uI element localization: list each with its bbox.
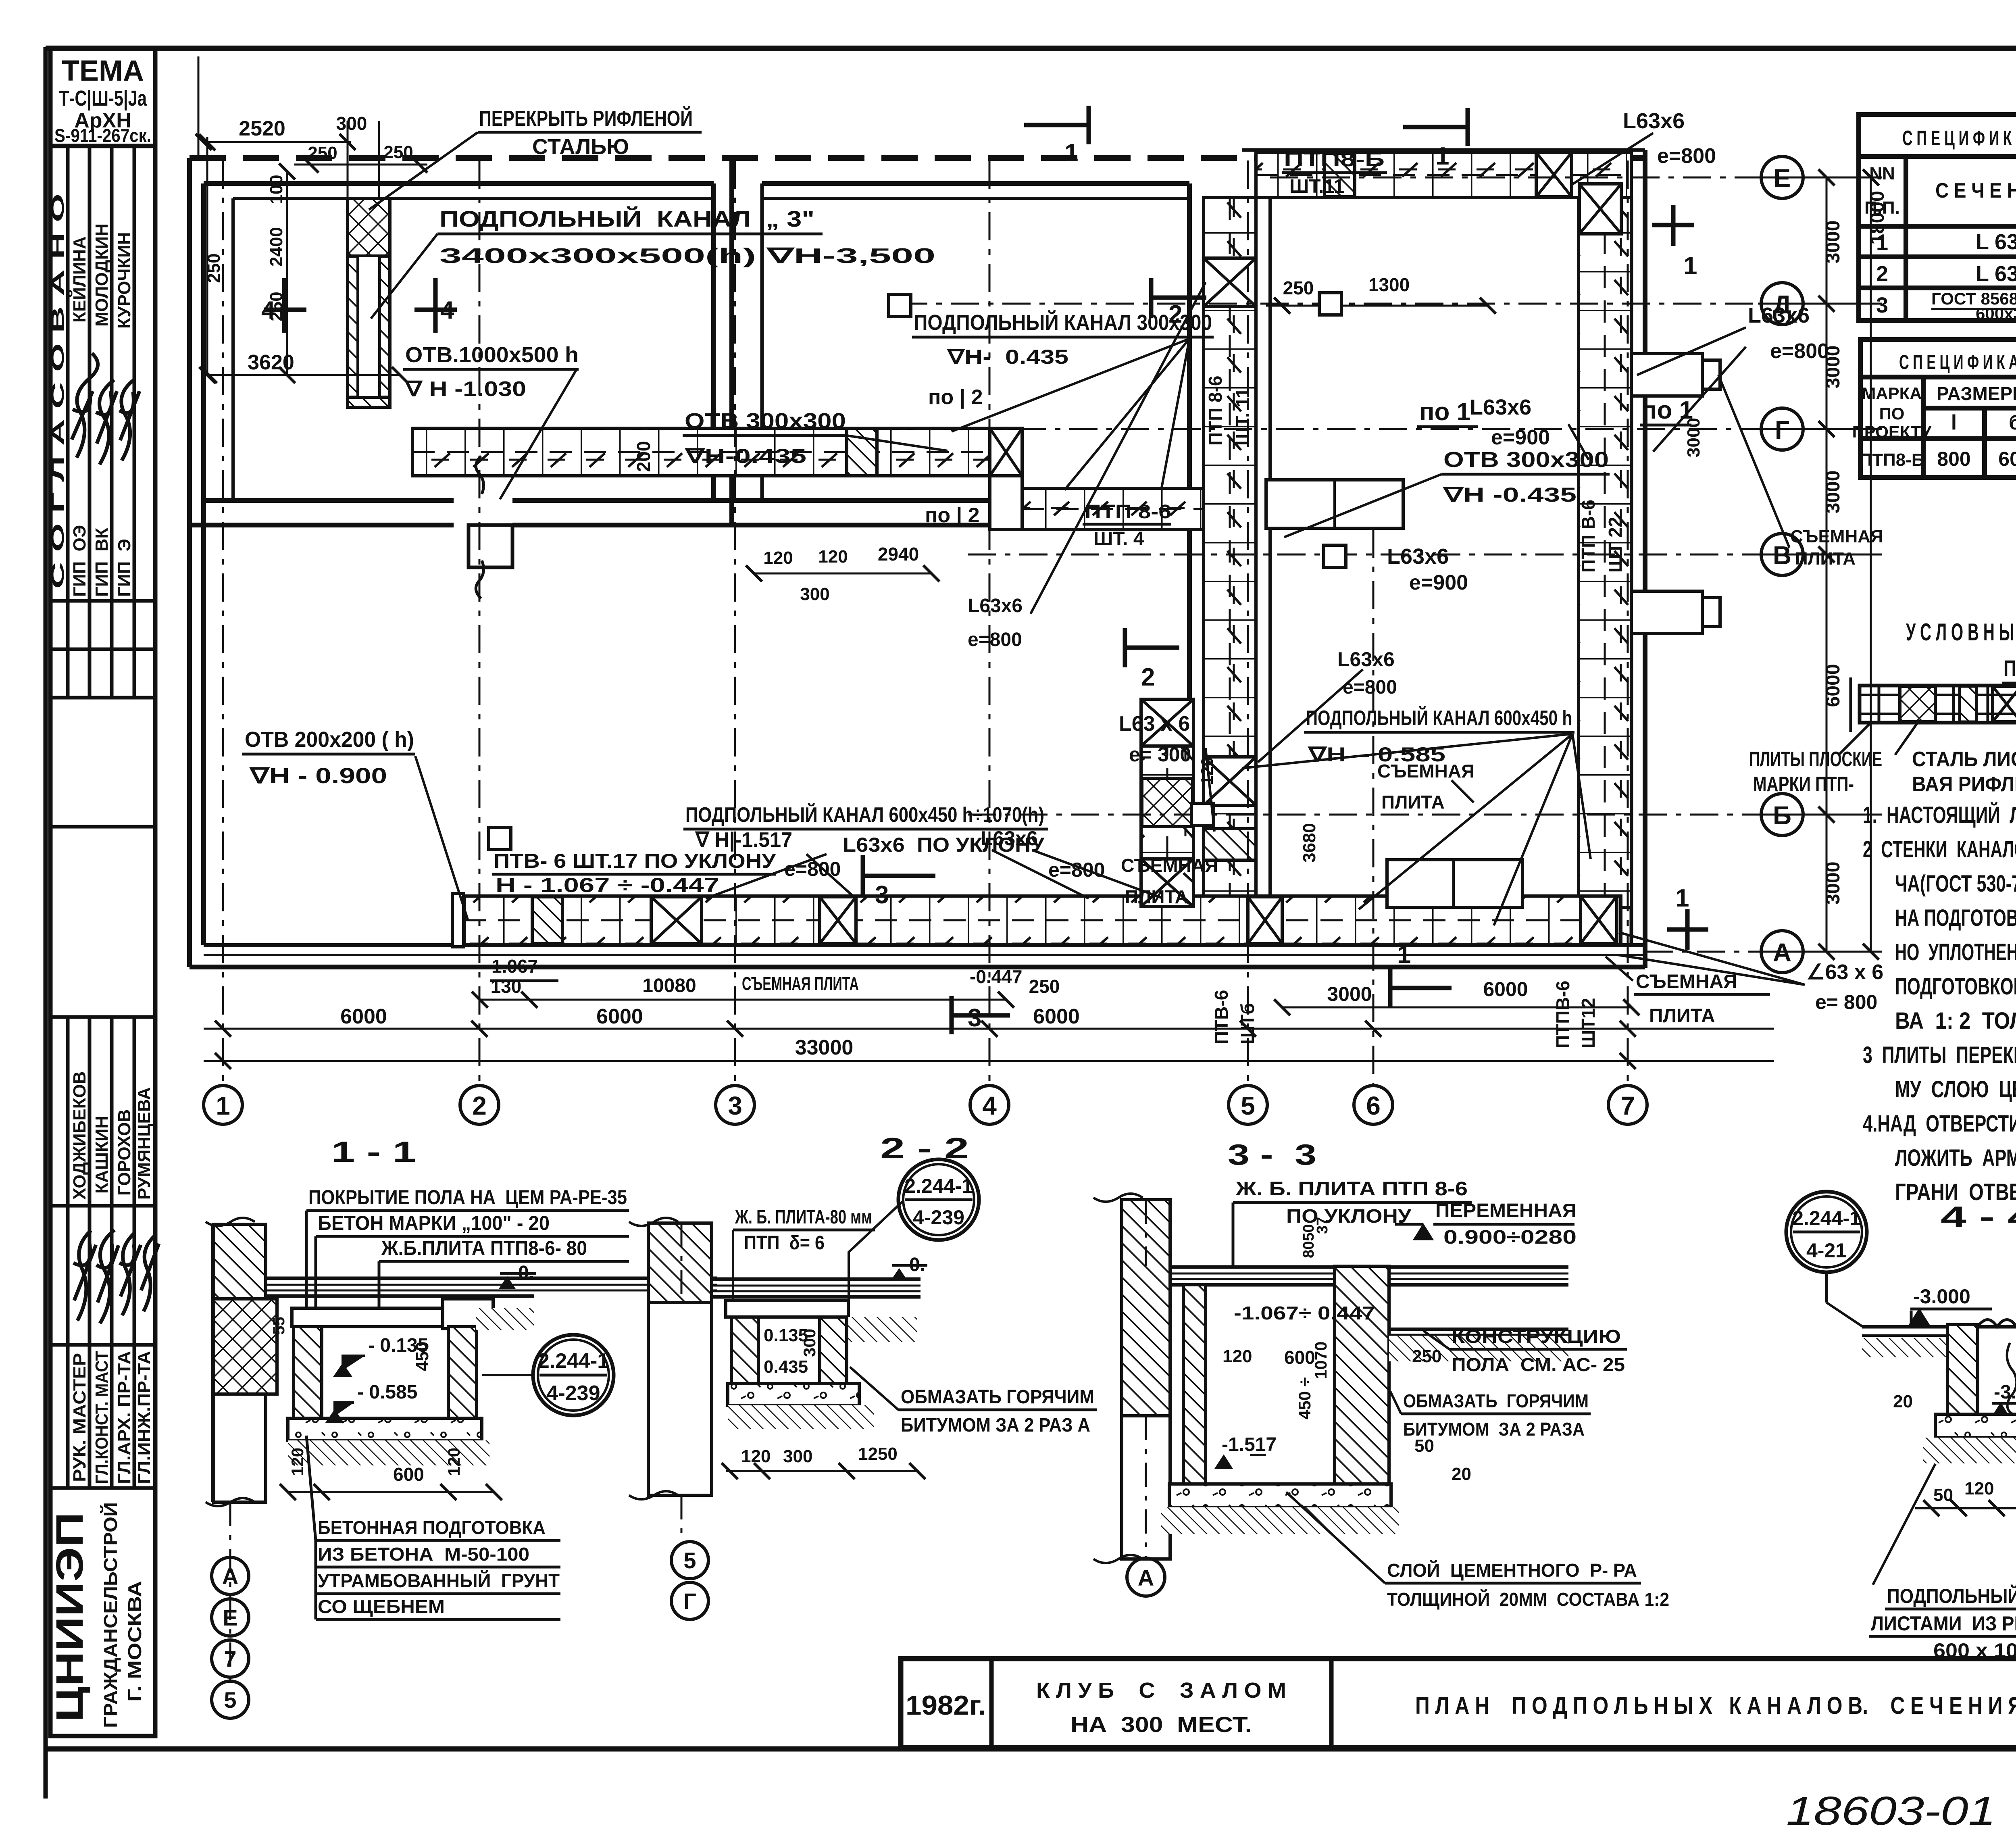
svg-text:ЛОЖИТЬ АРМАТУРУ ф 10 А-П ЧЕ: ЛОЖИТЬ АРМАТУРУ ф 10 А-П ЧЕРЕЗ 100 ММ. С… (1895, 1145, 2016, 1171)
svg-text:L 63 х 6: L 63 х 6 (1976, 262, 2016, 286)
svg-text:е=800: е=800 (1770, 340, 1829, 363)
svg-text:Г: Г (683, 1588, 696, 1614)
svg-text:ПТП8-Б: ПТП8-Б (1860, 450, 1924, 470)
svg-text:ВАЯ РИФЛЕНАЯ: ВАЯ РИФЛЕНАЯ (1912, 773, 2016, 796)
svg-text:3400х300х500(h) ∇Н-3,500: 3400х300х500(h) ∇Н-3,500 (439, 244, 935, 268)
svg-text:СЪЕМНАЯ: СЪЕМНАЯ (1377, 761, 1475, 782)
svg-text:300: 300 (800, 584, 829, 604)
svg-text:l: l (1951, 411, 1957, 434)
svg-text:ИЗ БЕТОНА М-50-100: ИЗ БЕТОНА М-50-100 (318, 1544, 529, 1565)
svg-text:А: А (1138, 1565, 1154, 1590)
svg-text:120: 120 (1964, 1479, 1994, 1498)
svg-text:ПТВ- 6 ШТ.17 ПО УКЛОНУ: ПТВ- 6 ШТ.17 ПО УКЛОНУ (494, 850, 776, 872)
svg-text:е= 300: е= 300 (1129, 743, 1191, 766)
svg-text:600х3: 600х3 (1976, 304, 2016, 323)
svg-text:ПТП В-6: ПТП В-6 (1578, 500, 1599, 573)
svg-text:е=800: е=800 (1048, 859, 1105, 881)
svg-text:3: 3 (728, 1091, 742, 1120)
svg-text:ПОЛА СМ. АС- 25: ПОЛА СМ. АС- 25 (1452, 1354, 1625, 1375)
svg-text:НА 300 МЕСТ.: НА 300 МЕСТ. (1070, 1713, 1252, 1737)
svg-text:3680: 3680 (1300, 823, 1319, 863)
svg-text:УТРАМБОВАННЫЙ ГРУНТ: УТРАМБОВАННЫЙ ГРУНТ (318, 1570, 560, 1591)
svg-text:ПОДПОЛЬНЫЙ КАНАЛ ПЕРЕКРЫТЬ: ПОДПОЛЬНЫЙ КАНАЛ ПЕРЕКРЫТЬ (1887, 1584, 2016, 1607)
svg-text:КАШКИН: КАШКИН (92, 1116, 112, 1194)
svg-text:1: 1 (216, 1091, 230, 1120)
svg-text:КОНСТРУКЦИЮ: КОНСТРУКЦИЮ (1452, 1326, 1621, 1347)
svg-text:1.067: 1.067 (492, 956, 538, 977)
svg-text:33000: 33000 (795, 1036, 854, 1059)
svg-text:2 - 2: 2 - 2 (880, 1132, 969, 1165)
svg-text:450 ÷: 450 ÷ (1295, 1377, 1314, 1419)
svg-text:∠63 х 6: ∠63 х 6 (1806, 961, 1883, 984)
svg-text:ПЛИТА: ПЛИТА (1381, 792, 1445, 813)
svg-text:КУРОЧКИН: КУРОЧКИН (115, 232, 134, 329)
svg-text:4: 4 (982, 1091, 997, 1120)
svg-text:-1.517: -1.517 (1222, 1434, 1277, 1455)
svg-text:3000: 3000 (1327, 983, 1372, 1005)
svg-text:ВА 1: 2 ТОЛЩИНОЙ 20ММ.: ВА 1: 2 ТОЛЩИНОЙ 20ММ. (1895, 1008, 2016, 1034)
svg-text:по | 2: по | 2 (925, 504, 980, 527)
svg-text:6000: 6000 (1822, 664, 1844, 707)
svg-text:МАРКИ ПТП-: МАРКИ ПТП- (1753, 773, 1854, 796)
svg-text:4 - 4: 4 - 4 (1941, 1201, 2016, 1233)
svg-text:-1.067÷ 0.447: -1.067÷ 0.447 (1234, 1303, 1375, 1323)
svg-text:1: 1 (1064, 139, 1078, 167)
svg-text:1: 1 (1435, 142, 1449, 170)
svg-text:300: 300 (336, 113, 367, 134)
svg-text:4.НАД ОТВЕРСТИЯМИ В СТЕНАХ: 4.НАД ОТВЕРСТИЯМИ В СТЕНАХ ШИРИНОЙ МЕНЕЕ… (1863, 1111, 2016, 1137)
svg-text:по 1: по 1 (1419, 398, 1470, 426)
svg-text:1982г.: 1982г. (906, 1690, 986, 1721)
svg-text:∇ Н -1.030: ∇ Н -1.030 (404, 377, 526, 401)
svg-text:5: 5 (683, 1548, 696, 1573)
svg-text:55: 55 (270, 1317, 288, 1335)
svg-text:ПОДПОЛЬНЫЙ КАНАЛ 300х300: ПОДПОЛЬНЫЙ КАНАЛ 300х300 (914, 310, 1212, 335)
svg-text:130: 130 (491, 976, 522, 997)
svg-text:Ж.Б.ПЛИТА ПТП8-6- 80: Ж.Б.ПЛИТА ПТП8-6- 80 (381, 1237, 587, 1259)
svg-text:1: 1 (1397, 941, 1411, 969)
svg-text:4: 4 (440, 296, 454, 324)
svg-text:БЕТОННАЯ ПОДГОТОВКА: БЕТОННАЯ ПОДГОТОВКА (318, 1517, 546, 1538)
svg-text:2 СТЕНКИ КАНАЛОВ ВЫПОЛНЯТЬ: 2 СТЕНКИ КАНАЛОВ ВЫПОЛНЯТЬ ИЗ ОБЫКНОВЕНН… (1863, 836, 2016, 863)
svg-text:2520: 2520 (239, 117, 285, 140)
svg-text:ОТВ.1000х500 h: ОТВ.1000х500 h (405, 343, 579, 367)
svg-text:е=800: е=800 (1657, 144, 1716, 168)
svg-text:800: 800 (1937, 448, 1970, 470)
svg-text:ШТб: ШТб (1237, 1003, 1258, 1044)
svg-text:У С Л О В Н Ы Е О Б О З Н А: У С Л О В Н Ы Е О Б О З Н А Ч Е Н И Я Н … (1906, 619, 2016, 646)
svg-text:С П Е Ц И Ф И К А Ц И Я М Е: С П Е Ц И Ф И К А Ц И Я М Е Т А Л Л И Ч … (1902, 126, 2016, 150)
svg-text:3: 3 (968, 1004, 981, 1032)
svg-text:L63х6: L63х6 (1387, 544, 1449, 569)
svg-text:2: 2 (1876, 262, 1888, 286)
svg-text:4-239: 4-239 (913, 1206, 964, 1229)
svg-text:L 63 х 6: L 63 х 6 (1976, 230, 2016, 254)
svg-text:1: 1 (1675, 884, 1689, 912)
svg-text:ОБМАЗАТЬ ГОРЯЧИМ: ОБМАЗАТЬ ГОРЯЧИМ (901, 1386, 1094, 1408)
svg-text:1070: 1070 (1311, 1342, 1330, 1379)
svg-text:С О Г Л А С О В А Н О: С О Г Л А С О В А Н О (48, 194, 68, 589)
svg-text:БИТУМОМ ЗА 2 РАЗА: БИТУМОМ ЗА 2 РАЗА (1403, 1419, 1585, 1440)
svg-text:250: 250 (308, 143, 337, 163)
svg-text:1250: 1250 (858, 1444, 898, 1464)
svg-text:2.244-1: 2.244-1 (538, 1349, 609, 1373)
svg-text:18000: 18000 (1867, 191, 1888, 244)
svg-text:2400: 2400 (267, 227, 286, 267)
svg-text:L63х6: L63х6 (1470, 395, 1531, 419)
svg-text:ПОДПОЛЬНЫЙ КАНАЛ 600х450 h÷107: ПОДПОЛЬНЫЙ КАНАЛ 600х450 h÷1070(h) (685, 803, 1044, 827)
svg-text:по 1: по 1 (1642, 396, 1693, 424)
svg-text:ПОДПОЛЬНЫЙ КАНАЛ „ 3": ПОДПОЛЬНЫЙ КАНАЛ „ 3" (439, 206, 814, 231)
svg-text:120: 120 (818, 547, 848, 567)
svg-text:6: 6 (1366, 1091, 1381, 1120)
svg-text:МОЛОДКИН: МОЛОДКИН (92, 223, 112, 327)
svg-text:ОТВ 200х200 ( h): ОТВ 200х200 ( h) (245, 727, 414, 752)
svg-text:НО УПЛОТНЕННЫЙ ГРУНТ. МЕЖДУ: НО УПЛОТНЕННЫЙ ГРУНТ. МЕЖДУ КИРПИЧНЫМИ С… (1895, 939, 2016, 965)
svg-text:1300: 1300 (1368, 274, 1410, 295)
svg-text:300: 300 (800, 1329, 819, 1357)
svg-text:0.900÷0280: 0.900÷0280 (1443, 1227, 1577, 1248)
svg-text:4: 4 (261, 296, 275, 324)
svg-text:20: 20 (1893, 1392, 1913, 1411)
svg-text:120: 120 (288, 1448, 307, 1476)
svg-text:20: 20 (1452, 1464, 1471, 1484)
svg-text:600: 600 (1284, 1347, 1315, 1368)
svg-text:е= 800: е= 800 (1815, 991, 1877, 1013)
svg-text:ТЕМА: ТЕМА (62, 55, 144, 87)
svg-text:7: 7 (1620, 1091, 1635, 1120)
svg-text:ПО: ПО (1879, 404, 1905, 423)
svg-text:К Л У Б С З А Л О М: К Л У Б С З А Л О М (1036, 1678, 1286, 1703)
svg-text:6000: 6000 (1483, 978, 1528, 1000)
svg-text:С П Е Ц И Ф И К А Ц И Я Ж: С П Е Ц И Ф И К А Ц И Я Ж Е Л Е З О Б Е … (1899, 350, 2016, 373)
svg-text:3: 3 (1876, 293, 1888, 317)
svg-text:∇Н-0.435: ∇Н-0.435 (684, 445, 806, 467)
svg-text:ПТВ-6: ПТВ-6 (1211, 990, 1232, 1044)
svg-text:ПО УКЛОНУ: ПО УКЛОНУ (1286, 1206, 1412, 1227)
svg-text:СЛОЙ ЦЕМЕНТНОГО Р- РА: СЛОЙ ЦЕМЕНТНОГО Р- РА (1387, 1560, 1637, 1581)
svg-text:ГЛ.АРХ. ПР-ТА: ГЛ.АРХ. ПР-ТА (115, 1351, 134, 1484)
svg-text:б: б (2009, 411, 2016, 434)
svg-text:СЪЕМНАЯ: СЪЕМНАЯ (1121, 855, 1218, 876)
svg-text:ПОДГОТОВКОЙ УЛОЖИТЬ СЛОЙ ЦЕ: ПОДГОТОВКОЙ УЛОЖИТЬ СЛОЙ ЦЕМЕНТНОГО РАСТ… (1895, 973, 2016, 1000)
svg-text:Т-С|Ш-5|Jа: Т-С|Ш-5|Jа (59, 86, 147, 111)
svg-text:ЦНИИЭП: ЦНИИЭП (48, 1512, 91, 1722)
svg-text:∇Н- 0.435: ∇Н- 0.435 (946, 346, 1068, 368)
svg-text:250: 250 (1283, 277, 1314, 298)
svg-text:600: 600 (393, 1464, 424, 1485)
svg-text:ПТП 8-6: ПТП 8-6 (1085, 501, 1171, 523)
svg-text:ШТ 22: ШТ 22 (1605, 517, 1626, 573)
svg-text:1 - 1: 1 - 1 (331, 1136, 416, 1168)
svg-text:4-239: 4-239 (547, 1382, 600, 1405)
svg-text:3000: 3000 (1822, 471, 1844, 514)
svg-text:50: 50 (1933, 1485, 1953, 1505)
svg-text:- 0.585: - 0.585 (357, 1382, 417, 1403)
svg-text:СЪЕМНАЯ: СЪЕМНАЯ (1790, 527, 1883, 546)
svg-text:БЕТОН МАРКИ „100" - 20: БЕТОН МАРКИ „100" - 20 (318, 1212, 550, 1234)
svg-text:∇Н - 0.900: ∇Н - 0.900 (249, 764, 387, 788)
svg-text:РУМЯНЦЕВА: РУМЯНЦЕВА (134, 1087, 154, 1200)
svg-text:250: 250 (1412, 1346, 1441, 1366)
svg-text:2940: 2940 (878, 544, 919, 565)
svg-text:250: 250 (1029, 976, 1060, 997)
svg-text:ШТ.11: ШТ.11 (1289, 176, 1344, 197)
svg-text:ПЛИТЫ ПЛОСКИЕ: ПЛИТЫ ПЛОСКИЕ (1749, 748, 1882, 771)
svg-text:5: 5 (1241, 1091, 1255, 1120)
svg-text:ШТ. 11: ШТ. 11 (1232, 388, 1253, 446)
svg-text:2: 2 (1141, 663, 1155, 691)
svg-text:С Е Ч Е Н И Е: С Е Ч Е Н И Е (1935, 179, 2016, 202)
svg-text:ГРАЖДАНСЕЛЬСТРОЙ: ГРАЖДАНСЕЛЬСТРОЙ (100, 1502, 121, 1728)
svg-text:3 ПЛИТЫ ПЕРЕКРЫТИЯ КАНАЛОВ: 3 ПЛИТЫ ПЕРЕКРЫТИЯ КАНАЛОВ УКЛАДЫВАТЬ ПО… (1863, 1042, 2016, 1068)
svg-text:КЕЙЛИНА: КЕЙЛИНА (69, 236, 90, 323)
svg-text:Н - 1.067 ÷ -0.447: Н - 1.067 ÷ -0.447 (496, 874, 719, 896)
svg-text:ГЛ.КОНСТ. МАСТ: ГЛ.КОНСТ. МАСТ (92, 1351, 112, 1484)
svg-text:10080: 10080 (642, 975, 696, 996)
svg-text:250: 250 (204, 253, 224, 283)
svg-text:Г. МОСКВА: Г. МОСКВА (124, 1581, 145, 1702)
svg-text:ХОДЖИБЕКОВ: ХОДЖИБЕКОВ (70, 1071, 90, 1200)
svg-text:3000: 3000 (1822, 862, 1844, 905)
svg-text:ЛИСТАМИ ИЗ РИФЛЕНОЙ СТАЛИ: ЛИСТАМИ ИЗ РИФЛЕНОЙ СТАЛИ (1871, 1612, 2016, 1635)
svg-text:ПЛИТЫ СЪЕМНЫЕ: ПЛИТЫ СЪЕМНЫЕ (2004, 655, 2016, 681)
svg-text:ПТП 8-6: ПТП 8-6 (1205, 376, 1226, 446)
svg-text:300: 300 (783, 1446, 812, 1466)
svg-text:ПТП8-Б: ПТП8-Б (1284, 148, 1385, 171)
svg-text:ПОКРЫТИЕ ПОЛА НА ЦЕМ РА-РЕ-35: ПОКРЫТИЕ ПОЛА НА ЦЕМ РА-РЕ-35 (308, 1186, 627, 1209)
svg-text:ГЛ.ИНЖ.ПР-ТА: ГЛ.ИНЖ.ПР-ТА (134, 1351, 154, 1484)
svg-text:L63х6: L63х6 (1748, 303, 1810, 327)
svg-text:е=800: е=800 (968, 629, 1022, 650)
svg-text:1: 1 (1683, 252, 1697, 280)
svg-text:18603-01: 18603-01 (1786, 1788, 1996, 1834)
svg-text:0.435: 0.435 (764, 1357, 808, 1377)
svg-text:3000: 3000 (1822, 221, 1844, 264)
svg-text:ШТ. 4: ШТ. 4 (1093, 528, 1144, 550)
svg-text:∇ Н|-1.517: ∇ Н|-1.517 (695, 828, 792, 852)
svg-text:ПЛИТА: ПЛИТА (1795, 549, 1856, 569)
svg-text:Ж. Б. ПЛИТА ПТП 8-6: Ж. Б. ПЛИТА ПТП 8-6 (1235, 1178, 1468, 1200)
svg-text:ГИП ОЭ: ГИП ОЭ (70, 525, 90, 597)
svg-text:120: 120 (763, 548, 793, 568)
svg-text:ТОЛЩИНОЙ 20ММ СОСТАВА 1:2: ТОЛЩИНОЙ 20ММ СОСТАВА 1:2 (1387, 1589, 1669, 1610)
svg-text:РУК. МАСТЕР: РУК. МАСТЕР (70, 1353, 90, 1482)
svg-text:2: 2 (1168, 300, 1182, 328)
svg-text:100: 100 (267, 175, 286, 204)
svg-text:ПТП δ= 6: ПТП δ= 6 (744, 1232, 825, 1254)
svg-text:250: 250 (383, 142, 413, 162)
svg-text:1. НАСТОЯЩИЙ ЛИСТ СМОТРЕТЬ С: 1. НАСТОЯЩИЙ ЛИСТ СМОТРЕТЬ СОВМЕСТНО С Л… (1863, 802, 2016, 828)
svg-text:-3.000: -3.000 (1913, 1285, 1970, 1308)
svg-text:2.244-1: 2.244-1 (1792, 1207, 1861, 1230)
svg-text:6000: 6000 (340, 1005, 387, 1028)
svg-text:ГОРОХОВ: ГОРОХОВ (115, 1109, 134, 1196)
svg-text:600: 600 (1998, 448, 2016, 470)
svg-text:ГИП Э: ГИП Э (115, 539, 134, 597)
svg-text:37: 37 (1314, 1217, 1331, 1234)
svg-text:БИТУМОМ ЗА 2 РАЗ А: БИТУМОМ ЗА 2 РАЗ А (901, 1415, 1090, 1436)
svg-text:450: 450 (412, 1342, 432, 1371)
svg-text:ОТВ 300х300: ОТВ 300х300 (685, 409, 846, 433)
svg-text:МУ СЛОЮ ЦЕМЕНТНОГО РАСТВОРА: МУ СЛОЮ ЦЕМЕНТНОГО РАСТВОРА М-50 ТОЛЩИНО… (1895, 1076, 2016, 1102)
svg-text:НА ПОДГОТОВКУ ИЗ БЕТОНА МАРКИ: НА ПОДГОТОВКУ ИЗ БЕТОНА МАРКИ 50, УЛОЖЕН… (1895, 905, 2016, 931)
svg-text:4-21: 4-21 (1806, 1239, 1847, 1262)
svg-text:ГИП ВК: ГИП ВК (92, 528, 112, 597)
svg-text:L63х6: L63х6 (968, 595, 1023, 617)
svg-text:3620: 3620 (248, 351, 294, 374)
svg-text:120: 120 (1223, 1346, 1252, 1366)
svg-text:ЧА(ГОСТ 530-71) МАРКИ 75 НА: ЧА(ГОСТ 530-71) МАРКИ 75 НА РАСТВОРЕ МАР… (1895, 871, 2016, 897)
svg-text:6000: 6000 (596, 1005, 643, 1028)
svg-text:ПРОЕКТУ: ПРОЕКТУ (1852, 422, 1932, 441)
svg-text:СЪЕМНАЯ: СЪЕМНАЯ (1636, 971, 1737, 992)
svg-text:5: 5 (224, 1687, 236, 1713)
svg-text:по | 2: по | 2 (928, 386, 983, 409)
svg-text:А: А (222, 1563, 238, 1589)
svg-text:ПЛИТА: ПЛИТА (1649, 1005, 1715, 1027)
svg-text:2.244-1: 2.244-1 (904, 1175, 973, 1197)
svg-text:СО ЩЕБНЕМ: СО ЩЕБНЕМ (318, 1596, 445, 1617)
svg-text:П Л А Н П О Д П О Л Ь Н Ы Х: П Л А Н П О Д П О Л Ь Н Ы Х К А Н А Л О … (1415, 1692, 2016, 1719)
svg-text:СТАЛЬЮ: СТАЛЬЮ (532, 135, 629, 159)
svg-text:6000: 6000 (1033, 1005, 1080, 1028)
svg-text:ПЕРЕКРЫТЬ РИФЛЕНОЙ: ПЕРЕКРЫТЬ РИФЛЕНОЙ (479, 106, 693, 131)
svg-text:3 - 3: 3 - 3 (1228, 1139, 1316, 1171)
svg-text:3: 3 (875, 881, 889, 909)
svg-text:е=900: е=900 (1491, 426, 1550, 449)
svg-text:ШТ12: ШТ12 (1578, 998, 1599, 1049)
svg-text:∇Н -0.435: ∇Н -0.435 (1442, 484, 1577, 506)
svg-text:ОБМАЗАТЬ ГОРЯЧИМ: ОБМАЗАТЬ ГОРЯЧИМ (1403, 1390, 1589, 1411)
svg-text:2: 2 (472, 1091, 487, 1120)
svg-text:L63х6: L63х6 (1623, 109, 1685, 133)
svg-text:СЪЕМНАЯ ПЛИТА: СЪЕМНАЯ ПЛИТА (742, 973, 859, 994)
svg-text:-0.447: -0.447 (970, 966, 1022, 987)
svg-text:Е: Е (223, 1605, 237, 1630)
svg-text:S-911-267ск.: S-911-267ск. (54, 125, 151, 146)
svg-text:200: 200 (633, 441, 654, 472)
svg-text:СТАЛЬ ЛИСТО-: СТАЛЬ ЛИСТО- (1912, 748, 2016, 771)
svg-text:L63х6: L63х6 (1337, 648, 1395, 671)
svg-text:L63 х 6: L63 х 6 (1119, 712, 1190, 736)
svg-text:РАЗМЕРЫ В ММ: РАЗМЕРЫ В ММ (1937, 383, 2016, 404)
svg-text:е=900: е=900 (1409, 571, 1468, 594)
svg-text:Ж. Б. ПЛИТА-80 мм: Ж. Б. ПЛИТА-80 мм (735, 1207, 872, 1228)
svg-text:ПТПВ-6: ПТПВ-6 (1552, 981, 1573, 1048)
svg-text:ПОДПОЛЬНЫЙ КАНАЛ 600х450 h: ПОДПОЛЬНЫЙ КАНАЛ 600х450 h (1306, 706, 1572, 730)
svg-text:120: 120 (444, 1448, 463, 1476)
svg-text:7: 7 (224, 1646, 236, 1671)
